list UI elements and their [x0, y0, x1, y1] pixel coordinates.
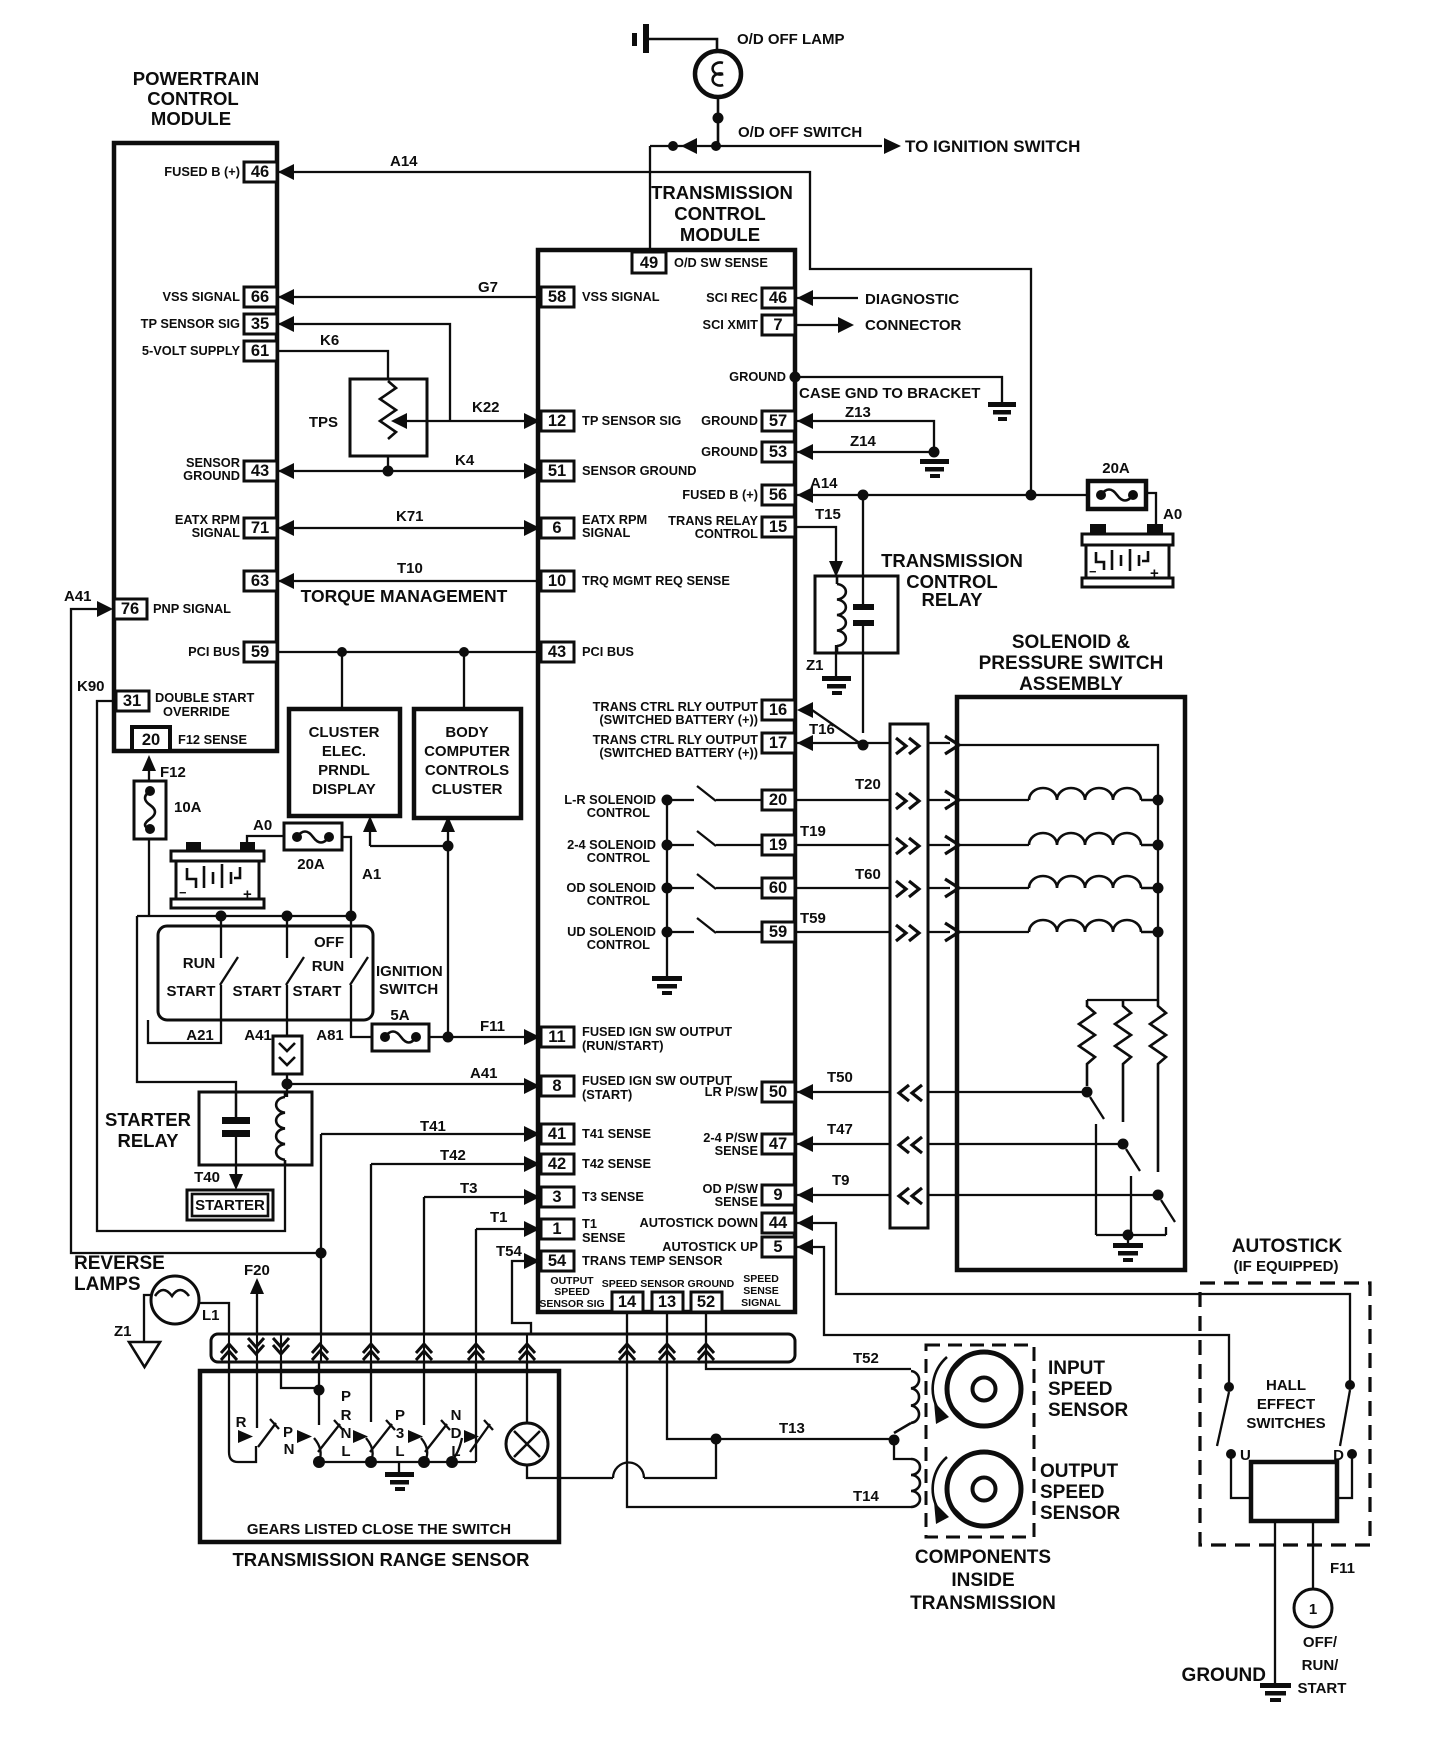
pin 53 GROUND — [762, 442, 795, 462]
svg-text:RELAY: RELAY — [921, 589, 983, 610]
svg-text:Z14: Z14 — [850, 433, 877, 450]
svg-text:TP SENSOR SIG: TP SENSOR SIG — [582, 413, 681, 428]
svg-text:43: 43 — [251, 462, 269, 480]
pin 43 PCI BUS — [541, 642, 574, 662]
wire (case ground) — [795, 377, 1002, 402]
svg-text:57: 57 — [769, 412, 787, 430]
svg-text:Z1: Z1 — [806, 657, 824, 674]
svg-text:RELAY: RELAY — [117, 1130, 179, 1151]
wire T9 row — [797, 1194, 1158, 1196]
wire (fuse to battery) — [1146, 493, 1156, 527]
solenoid coil (2-4) — [1029, 833, 1158, 845]
svg-text:A41: A41 — [244, 1027, 272, 1044]
pin 49 O/D SW SENSE — [632, 252, 666, 273]
pin 71 EATX RPM SIGNAL — [244, 518, 277, 538]
body computer controls cluster — [414, 709, 521, 818]
svg-text:K6: K6 — [320, 332, 339, 349]
wire K90 (pin 31 to starter relay coil) — [97, 701, 285, 1231]
svg-text:16: 16 — [769, 701, 787, 719]
wire Z1 (lamp ground) — [144, 1295, 152, 1342]
pin 10 TRQ MGMT REQ SENSE — [541, 571, 574, 591]
wire (battery to fuse A0) — [247, 836, 284, 842]
pressure switch (2-4) — [1118, 1139, 1129, 1150]
svg-text:56: 56 — [769, 486, 787, 504]
svg-text:15: 15 — [769, 518, 787, 536]
svg-text:F11: F11 — [480, 1018, 505, 1035]
svg-text:IGNITION: IGNITION — [376, 963, 443, 980]
svg-text:59: 59 — [769, 923, 787, 941]
svg-text:T42: T42 — [440, 1147, 466, 1164]
svg-text:ELEC.: ELEC. — [322, 743, 366, 760]
svg-text:SWITCH: SWITCH — [379, 981, 438, 998]
svg-text:20: 20 — [142, 731, 160, 749]
svg-text:T13: T13 — [779, 1420, 805, 1437]
wire (R line into TRS) — [229, 1362, 256, 1462]
svg-text:SPEED: SPEED — [554, 1286, 590, 1298]
wire T47 row — [797, 1143, 1123, 1145]
svg-text:A14: A14 — [390, 153, 418, 170]
svg-text:L: L — [395, 1443, 404, 1460]
svg-text:PNP SIGNAL: PNP SIGNAL — [153, 601, 231, 616]
pin 6 EATX RPM SIGNAL — [541, 518, 574, 538]
wire T13 (speed sensor ground) — [667, 1312, 894, 1439]
pin 52 — [691, 1292, 722, 1312]
svg-text:STARTER: STARTER — [105, 1109, 191, 1130]
wire A1 (fuse to ignition bus) — [342, 837, 351, 916]
resistor (OD pressure switch pull-up) — [1150, 1000, 1166, 1172]
solenoid coil (L-R) — [1029, 788, 1158, 800]
pin 9 OD P/SW SENSE — [762, 1185, 795, 1205]
wire (O/D switch to pin 49) — [649, 146, 651, 252]
ground (O/D lamp supply stub) — [632, 24, 649, 53]
svg-text:52: 52 — [697, 1293, 715, 1311]
switch (hall effect U) — [1224, 1382, 1234, 1392]
svg-text:POWERTRAIN: POWERTRAIN — [133, 68, 259, 89]
wire (PN jog) — [281, 1362, 317, 1388]
pin 5 AUTOSTICK UP — [762, 1237, 795, 1257]
pin 8 FUSED IGN SW OUTPUT (START) — [541, 1076, 574, 1096]
svg-text:A1: A1 — [362, 866, 381, 883]
svg-text:OUTPUT: OUTPUT — [1040, 1461, 1119, 1482]
svg-text:9: 9 — [773, 1186, 782, 1204]
svg-text:AUTOSTICK DOWN: AUTOSTICK DOWN — [640, 1215, 758, 1230]
wire (F11 feed to display modules) — [370, 831, 448, 1037]
svg-text:L1: L1 — [202, 1307, 220, 1324]
svg-text:SOLENOID &: SOLENOID & — [1012, 632, 1131, 653]
svg-text:3: 3 — [552, 1188, 561, 1206]
svg-text:20A: 20A — [1102, 460, 1130, 477]
svg-text:GROUND: GROUND — [701, 413, 758, 428]
wire (PRNL line) — [318, 1362, 320, 1425]
lamp O/D OFF LAMP — [695, 51, 741, 97]
svg-text:71: 71 — [251, 519, 269, 537]
svg-text:COMPUTER: COMPUTER — [424, 743, 510, 760]
svg-text:RUN: RUN — [312, 958, 345, 975]
transistor switch (OD solenoid driver) — [662, 883, 673, 894]
ground (TRS) — [398, 1462, 400, 1472]
svg-text:42: 42 — [548, 1155, 566, 1173]
wire F12 (pin 20 fuse feed) — [148, 770, 150, 916]
wire G7 (TCM 58 to PCM 66) — [278, 296, 541, 298]
svg-text:R: R — [341, 1407, 352, 1424]
svg-text:5: 5 — [773, 1238, 782, 1256]
svg-text:DISPLAY: DISPLAY — [312, 781, 376, 798]
pressure switch (LR) — [1082, 1087, 1093, 1098]
svg-text:TORQUE MANAGEMENT: TORQUE MANAGEMENT — [301, 586, 508, 606]
svg-text:BODY: BODY — [445, 724, 488, 741]
svg-text:T50: T50 — [827, 1069, 853, 1086]
svg-text:SENSE: SENSE — [582, 1230, 626, 1245]
svg-text:GROUND: GROUND — [729, 369, 786, 384]
pin 46 FUSED B (+) — [244, 162, 277, 182]
pin 20 L-R SOLENOID CONTROL — [762, 790, 795, 810]
wire (T54 into TRS lamp) — [526, 1362, 528, 1424]
autostick module block — [1231, 1454, 1352, 1498]
svg-text:7: 7 — [773, 316, 782, 334]
svg-text:PRNDL: PRNDL — [318, 762, 370, 779]
svg-text:SCI REC: SCI REC — [706, 290, 758, 305]
svg-text:44: 44 — [769, 1214, 788, 1232]
svg-text:F12: F12 — [160, 764, 186, 781]
wire T50 row — [797, 1091, 1087, 1093]
svg-text:A14: A14 — [810, 475, 838, 492]
svg-text:59: 59 — [251, 643, 269, 661]
svg-text:MODULE: MODULE — [680, 224, 760, 245]
svg-text:A21: A21 — [186, 1027, 214, 1044]
svg-text:TRANS TEMP SENSOR: TRANS TEMP SENSOR — [582, 1253, 723, 1268]
svg-text:CONTROL: CONTROL — [695, 526, 758, 541]
svg-text:6: 6 — [552, 519, 561, 537]
pin 1 T1 SENSE — [541, 1219, 574, 1239]
connector (solenoid assembly bulkhead) — [890, 724, 928, 1228]
svg-text:SIGNAL: SIGNAL — [582, 525, 631, 540]
svg-text:SENSOR: SENSOR — [1040, 1503, 1121, 1524]
svg-text:CONTROLS: CONTROLS — [425, 762, 509, 779]
wire PCI BUS — [277, 652, 541, 709]
svg-text:43: 43 — [548, 643, 566, 661]
pin 47 2-4 P/SW SENSE — [762, 1134, 795, 1154]
pin 51 SENSOR GROUND — [541, 461, 574, 481]
svg-text:−: − — [1089, 564, 1096, 579]
switch (hall effect D) — [1345, 1380, 1355, 1390]
svg-text:CONTROL: CONTROL — [587, 805, 650, 820]
svg-text:SIGNAL: SIGNAL — [192, 525, 241, 540]
svg-text:T54: T54 — [496, 1243, 523, 1260]
svg-text:CLUSTER: CLUSTER — [309, 724, 380, 741]
svg-text:41: 41 — [548, 1125, 566, 1143]
svg-text:FUSED B (+): FUSED B (+) — [682, 487, 758, 502]
svg-text:RUN: RUN — [183, 955, 216, 972]
svg-text:35: 35 — [251, 315, 269, 333]
svg-text:O/D OFF SWITCH: O/D OFF SWITCH — [738, 124, 862, 141]
ground (pressure switches) — [1127, 1235, 1129, 1243]
svg-text:CONNECTOR: CONNECTOR — [865, 317, 962, 334]
svg-text:T20: T20 — [855, 776, 881, 793]
svg-text:N: N — [284, 1441, 295, 1458]
svg-text:SIGNAL: SIGNAL — [741, 1297, 781, 1309]
svg-text:12: 12 — [548, 412, 566, 430]
wire T15 (trans relay control) — [795, 527, 836, 562]
svg-text:CONTROL: CONTROL — [147, 88, 238, 109]
svg-text:17: 17 — [769, 734, 787, 752]
wire (ground to lamp) — [649, 39, 717, 52]
svg-text:5A: 5A — [390, 1007, 409, 1024]
svg-text:LR P/SW: LR P/SW — [705, 1084, 759, 1099]
ground (Z1) — [822, 676, 851, 695]
pin 16 TRANS CTRL RLY OUTPUT — [762, 700, 795, 720]
svg-text:T16: T16 — [809, 721, 835, 738]
solenoid coil (UD) — [1029, 920, 1158, 932]
svg-text:(IF EQUIPPED): (IF EQUIPPED) — [1233, 1258, 1338, 1275]
svg-text:TRANSMISSION: TRANSMISSION — [881, 550, 1023, 571]
svg-text:VSS SIGNAL: VSS SIGNAL — [162, 289, 240, 304]
wire T42 — [371, 1164, 524, 1334]
svg-text:CONTROL: CONTROL — [674, 203, 765, 224]
svg-text:DIAGNOSTIC: DIAGNOSTIC — [865, 291, 959, 308]
svg-text:T10: T10 — [397, 560, 423, 577]
svg-text:SPEED: SPEED — [1040, 1482, 1104, 1503]
pin 13 SPEED SENSOR GROUND — [652, 1292, 683, 1312]
switch (ignition pole A21) — [220, 916, 238, 1018]
svg-text:EFFECT: EFFECT — [1257, 1396, 1315, 1413]
wire (T3 into TRS) — [423, 1362, 425, 1425]
svg-text:T60: T60 — [855, 866, 881, 883]
svg-text:8: 8 — [552, 1077, 561, 1095]
svg-text:SPEED SENSOR GROUND: SPEED SENSOR GROUND — [602, 1278, 735, 1290]
svg-text:K71: K71 — [396, 508, 424, 525]
svg-text:TRANSMISSION RANGE SENSOR: TRANSMISSION RANGE SENSOR — [232, 1549, 529, 1570]
svg-text:19: 19 — [769, 836, 787, 854]
ground (solenoid drivers) — [652, 976, 682, 995]
svg-text:CASE GND TO BRACKET: CASE GND TO BRACKET — [799, 385, 980, 402]
ignition switch — [158, 926, 373, 1020]
svg-text:VSS SIGNAL: VSS SIGNAL — [582, 289, 660, 304]
svg-text:K4: K4 — [455, 452, 475, 469]
svg-text:O/D OFF LAMP: O/D OFF LAMP — [737, 31, 845, 48]
svg-text:SPEED: SPEED — [1048, 1379, 1112, 1400]
svg-text:T9: T9 — [832, 1172, 850, 1189]
svg-text:GEARS LISTED CLOSE THE SWITCH: GEARS LISTED CLOSE THE SWITCH — [247, 1521, 511, 1538]
svg-text:T40: T40 — [194, 1169, 220, 1186]
svg-text:47: 47 — [769, 1135, 787, 1153]
svg-text:D: D — [451, 1425, 462, 1442]
svg-text:10A: 10A — [174, 799, 202, 816]
svg-text:T3 SENSE: T3 SENSE — [582, 1189, 644, 1204]
pin 57 GROUND — [762, 411, 795, 431]
svg-text:F20: F20 — [244, 1262, 270, 1279]
svg-text:T1: T1 — [490, 1209, 508, 1226]
svg-text:T41: T41 — [420, 1118, 446, 1135]
wire T19 — [795, 844, 1029, 846]
lamp (reverse) — [151, 1276, 199, 1324]
svg-text:T42 SENSE: T42 SENSE — [582, 1156, 651, 1171]
svg-text:MODULE: MODULE — [151, 108, 231, 129]
transistor switch (L-R solenoid driver) — [662, 795, 673, 806]
svg-text:FUSED IGN SW OUTPUT: FUSED IGN SW OUTPUT — [582, 1024, 732, 1039]
components inside transmission (dashed box) — [926, 1345, 1034, 1537]
svg-text:SENSE: SENSE — [715, 1143, 759, 1158]
pin 76 PNP SIGNAL — [114, 599, 147, 619]
wire F11 (to pin 11) — [429, 1036, 524, 1038]
svg-text:PRESSURE SWITCH: PRESSURE SWITCH — [979, 653, 1164, 674]
wire A41 (to pin 8) — [287, 1083, 524, 1085]
svg-text:54: 54 — [548, 1252, 567, 1270]
battery (vehicle battery) — [171, 842, 264, 908]
svg-text:TRANSMISSION: TRANSMISSION — [651, 182, 793, 203]
svg-text:T47: T47 — [827, 1121, 853, 1138]
svg-text:REVERSE: REVERSE — [74, 1253, 165, 1274]
pin 50 LR P/SW — [762, 1082, 795, 1102]
wire Z14 (pin 53 ground) — [797, 451, 934, 453]
wire T3 — [424, 1197, 524, 1334]
pin 59 PCI BUS — [244, 642, 277, 662]
wire A14 (pin 56 fused B+) — [797, 494, 1088, 496]
wire (TRS lamp to T13 node) — [527, 1439, 716, 1478]
svg-text:SENSE: SENSE — [715, 1194, 759, 1209]
solenoid coil (OD) — [1029, 876, 1158, 888]
svg-text:TO IGNITION SWITCH: TO IGNITION SWITCH — [905, 137, 1080, 156]
svg-text:P: P — [283, 1424, 293, 1441]
svg-text:PCI BUS: PCI BUS — [188, 644, 240, 659]
wire (pressure switch ground bus) — [1096, 1234, 1166, 1236]
wire (lamp to switch) — [717, 97, 720, 146]
wire K4 (sensor ground) — [278, 456, 540, 471]
svg-text:31: 31 — [123, 692, 141, 710]
ground (autostick) — [1260, 1683, 1291, 1702]
pin 12 TP SENSOR SIG — [541, 411, 574, 431]
pin 56 FUSED B (+) — [762, 485, 795, 505]
inductor (output speed sensor coil) — [894, 1440, 911, 1459]
svg-text:RUN/: RUN/ — [1302, 1657, 1339, 1674]
svg-text:SENSOR SIG: SENSOR SIG — [539, 1298, 604, 1310]
wire (solenoid supply to resistors) — [1087, 932, 1158, 1000]
pin 3 T3 SENSE — [541, 1187, 574, 1207]
svg-text:SWITCHES: SWITCHES — [1246, 1415, 1325, 1432]
svg-text:3: 3 — [396, 1425, 404, 1442]
svg-text:10: 10 — [548, 572, 566, 590]
svg-text:49: 49 — [640, 254, 658, 272]
svg-text:AUTOSTICK: AUTOSTICK — [1232, 1236, 1343, 1257]
resistor (LR pressure switch pull-up) — [1079, 1000, 1095, 1086]
wire (autostick up, pin 5) — [797, 1247, 1229, 1387]
pin 59 UD SOLENOID CONTROL — [762, 922, 795, 942]
svg-text:CONTROL: CONTROL — [587, 937, 650, 952]
svg-text:STARTER: STARTER — [195, 1197, 265, 1214]
pin 19 2-4 SOLENOID CONTROL — [762, 835, 795, 855]
svg-text:Z1: Z1 — [114, 1323, 132, 1340]
svg-text:T1: T1 — [582, 1216, 597, 1231]
svg-text:T41 SENSE: T41 SENSE — [582, 1126, 651, 1141]
wire T14 (pin 14 to output speed sensor) — [627, 1312, 911, 1507]
connector (transmission harness strip) — [211, 1334, 795, 1362]
wire (SCI REC diagnostic) — [797, 297, 858, 299]
wire A41 (pin 76 PNP signal) — [71, 609, 321, 1253]
wire (driver ground bus) — [666, 800, 668, 976]
svg-text:A41: A41 — [470, 1065, 498, 1082]
svg-text:(SWITCHED BATTERY (+)): (SWITCHED BATTERY (+)) — [599, 712, 758, 727]
pin 63 TRQ MGMT — [244, 571, 277, 591]
svg-text:SCI XMIT: SCI XMIT — [703, 317, 759, 332]
inductor (input speed sensor coil) — [894, 1371, 919, 1433]
pin 11 FUSED IGN SW OUTPUT (RUN/START) — [541, 1027, 574, 1047]
wire T52 (pin 52 to input speed sensor) — [706, 1312, 911, 1369]
wire T20 — [795, 799, 1029, 801]
pressure switch (OD) — [1153, 1190, 1164, 1201]
svg-text:OFF: OFF — [314, 934, 344, 951]
svg-text:HALL: HALL — [1266, 1377, 1306, 1394]
svg-text:(START): (START) — [582, 1087, 632, 1102]
svg-text:50: 50 — [769, 1083, 787, 1101]
svg-text:20: 20 — [769, 791, 787, 809]
svg-text:L: L — [341, 1443, 350, 1460]
wire T1 — [476, 1229, 524, 1334]
wire T10 (TRQ MGMT) — [278, 580, 541, 582]
svg-text:START: START — [1298, 1680, 1347, 1697]
cluster elec prndl display — [289, 709, 400, 816]
wire (TRS common bus) — [319, 1461, 476, 1463]
svg-text:SPEED: SPEED — [743, 1273, 779, 1285]
ground (Z1 triangle) — [129, 1342, 160, 1367]
svg-text:INSIDE: INSIDE — [951, 1570, 1014, 1591]
svg-text:START: START — [167, 983, 216, 1000]
svg-text:TPS: TPS — [309, 414, 338, 431]
wire F20 — [256, 1293, 258, 1334]
wire T54 — [512, 1261, 541, 1334]
svg-text:T3: T3 — [460, 1180, 478, 1197]
svg-text:T14: T14 — [853, 1488, 880, 1505]
node (lamp junction) — [713, 113, 724, 124]
wire A14 (PCM 46 to fuse node) — [278, 172, 1031, 495]
svg-text:TRQ MGMT REQ SENSE: TRQ MGMT REQ SENSE — [582, 573, 730, 588]
connector circle 1 (off/run/start feed) — [1294, 1589, 1332, 1627]
wire T40 (to starter) — [229, 1174, 243, 1190]
wire T59 — [795, 931, 1029, 933]
svg-text:T59: T59 — [800, 910, 826, 927]
svg-text:A81: A81 — [316, 1027, 344, 1044]
wire T16 row (pins 16/17 to solenoid supply) — [797, 710, 1158, 1000]
svg-text:OFF/: OFF/ — [1303, 1634, 1338, 1651]
svg-text:1: 1 — [1309, 1601, 1317, 1618]
pin 17 TRANS CTRL RLY OUTPUT — [762, 733, 795, 753]
wire T60 — [795, 887, 1029, 889]
wire L1 (lamp to range sensor) — [199, 1303, 229, 1334]
svg-text:CONTROL: CONTROL — [587, 850, 650, 865]
svg-text:1: 1 — [552, 1220, 561, 1238]
wire A21 — [148, 1018, 221, 1043]
svg-text:K90: K90 — [77, 678, 105, 695]
svg-text:61: 61 — [251, 342, 269, 360]
svg-text:SENSOR GROUND: SENSOR GROUND — [582, 463, 696, 478]
svg-text:T15: T15 — [815, 506, 841, 523]
svg-text:GROUND: GROUND — [701, 444, 758, 459]
svg-text:5-VOLT SUPPLY: 5-VOLT SUPPLY — [142, 343, 241, 358]
svg-text:CONTROL: CONTROL — [587, 893, 650, 908]
svg-text:GROUND: GROUND — [183, 468, 240, 483]
svg-text:T52: T52 — [853, 1350, 879, 1367]
ground (Z13/Z14) — [920, 459, 949, 478]
fuse F12 10A — [134, 781, 166, 839]
pin 46 SCI REC — [762, 288, 795, 308]
pin 42 T42 SENSE — [541, 1154, 574, 1174]
svg-text:COMPONENTS: COMPONENTS — [915, 1547, 1051, 1568]
svg-text:T19: T19 — [800, 823, 826, 840]
pin 66 VSS SIGNAL — [244, 287, 277, 307]
svg-text:ASSEMBLY: ASSEMBLY — [1019, 674, 1123, 695]
svg-text:R: R — [236, 1414, 247, 1431]
wire K6 (PCM 61 to TPS) — [277, 351, 388, 379]
lamp (TRS temp sensor) — [506, 1423, 548, 1465]
svg-text:46: 46 — [251, 163, 269, 181]
